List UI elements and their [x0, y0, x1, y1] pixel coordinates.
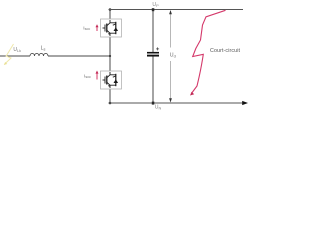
svg-text:ULk: ULk — [13, 47, 21, 53]
svg-text:Court-circuit: Court-circuit — [210, 48, 241, 54]
transistor T2 (lower IGBT module box) — [101, 71, 122, 89]
svg-text:Iscc: Iscc — [84, 73, 91, 79]
current arrow Iscc (upper, red, pointing up) — [96, 24, 99, 31]
node dot on top rail at capacitor — [152, 8, 155, 11]
wire: DC+ top rail — [109, 9, 244, 11]
transistor T1 (upper IGBT module box) — [101, 19, 122, 37]
node dot on bottom rail at capacitor — [152, 102, 155, 105]
node: top-left corner dot — [109, 8, 112, 11]
source flash (yellow lightning at grid input) — [4, 44, 13, 65]
svg-text:UP: UP — [152, 2, 159, 8]
wire: AC input horizontal from left edge to inductor — [0, 55, 30, 57]
current arrow Iscc (lower, red, pointing up) — [96, 71, 99, 80]
measure line U_d (vertical double arrow) — [169, 10, 172, 103]
svg-text:Iscc: Iscc — [83, 25, 90, 31]
inductor Ls (4 arcs) — [30, 53, 48, 56]
svg-text:Ud: Ud — [170, 53, 176, 59]
wire: capacitor branch — [152, 10, 154, 104]
node: phase junction dot — [109, 55, 111, 57]
bottom rail arrowhead — [242, 101, 248, 105]
capacitor C (DC-link) — [147, 53, 159, 56]
wire: DC- bottom rail — [109, 102, 244, 104]
capacitor + polarity mark — [156, 47, 159, 50]
svg-text:UN: UN — [155, 104, 162, 110]
wire: phase leg vertical — [109, 10, 111, 104]
svg-text:Ls: Ls — [41, 46, 46, 52]
short-circuit flash (red lightning bolt) — [190, 10, 226, 95]
node: bottom-left corner dot — [109, 102, 112, 105]
wire: inductor to phase node — [48, 55, 110, 57]
